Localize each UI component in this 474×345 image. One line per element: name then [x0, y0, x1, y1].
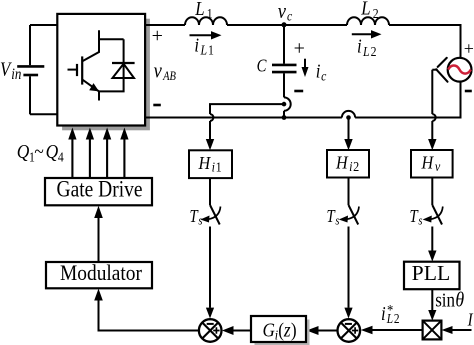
wire summer2 to modulator [94, 289, 198, 331]
label Ts 3 [410, 208, 423, 228]
arrow summer1 to Gi(z) [307, 326, 338, 335]
sampler Ts 3 [423, 178, 443, 262]
wire battery bottom [30, 113, 57, 115]
svg-text:2: 2 [371, 43, 377, 59]
svg-text:i: i [381, 302, 386, 324]
block Gi(z) shadow [255, 320, 310, 345]
svg-text:z: z [283, 319, 291, 342]
wire top rail mid [227, 24, 347, 26]
svg-text:Modulator: Modulator [60, 260, 142, 285]
wire Hv tap down with hop over rail [428, 70, 436, 151]
svg-text:Q: Q [17, 141, 30, 163]
gate drive arrows to inverter [68, 128, 128, 179]
inverter U1 shadow [62, 19, 150, 131]
label Ts 1 [190, 208, 203, 228]
svg-text:C: C [257, 57, 267, 75]
arrow input I [442, 326, 472, 334]
label vAB [154, 59, 176, 83]
svg-text:L: L [362, 43, 369, 59]
wire PLL to multiplier [428, 289, 436, 320]
block PLL [404, 261, 460, 289]
svg-text:s: s [198, 215, 203, 228]
sensor loop Hi2 pickup on rail [342, 111, 355, 120]
svg-text:v: v [278, 0, 287, 23]
arrow iL1 [190, 31, 222, 39]
wire modulator to gate drive [94, 206, 103, 262]
label sin theta [435, 289, 464, 312]
svg-text:T: T [327, 208, 336, 226]
svg-text:i: i [194, 34, 199, 56]
sampler Ts 1 [200, 178, 220, 319]
summer S2 [199, 319, 222, 342]
inductor L1 [185, 17, 227, 25]
svg-text:Gate Drive: Gate Drive [57, 177, 143, 202]
svg-text:2: 2 [353, 160, 359, 175]
svg-text:v: v [435, 160, 441, 175]
transistor Q IGBT [68, 39, 100, 91]
label L2 [360, 0, 378, 21]
svg-text:s: s [418, 215, 423, 228]
svg-text:2: 2 [394, 311, 400, 326]
wire Hi2 sense line [344, 119, 352, 150]
label ic [316, 60, 327, 84]
block Modulator [46, 260, 152, 288]
svg-text:L: L [360, 0, 370, 19]
wire top rail right [389, 25, 461, 57]
sensor block Hv [411, 150, 453, 178]
svg-text:4: 4 [58, 150, 64, 165]
multiplier X box [423, 321, 442, 340]
svg-text:+: + [464, 39, 474, 59]
svg-text:PLL: PLL [412, 261, 451, 285]
svg-text:+: + [294, 38, 305, 60]
label C [257, 57, 267, 75]
label + cap [294, 38, 305, 60]
voltage probe Hv clamp [432, 58, 447, 82]
block Gi(z) [251, 316, 306, 343]
label Q1~Q4 [17, 141, 65, 165]
svg-text:L: L [194, 0, 204, 19]
diode D [99, 30, 135, 100]
label - cap [294, 90, 303, 93]
label Ts 2 [327, 208, 340, 228]
label iL1 [194, 34, 213, 58]
svg-text:AB: AB [162, 70, 176, 83]
svg-text:T: T [410, 208, 419, 226]
svg-text:T: T [190, 208, 199, 226]
svg-text:i: i [316, 60, 321, 82]
summer S1 [338, 319, 361, 342]
arrow ic [302, 59, 309, 77]
svg-text:1: 1 [216, 160, 222, 175]
svg-text:H: H [198, 153, 212, 173]
svg-text:H: H [335, 153, 349, 173]
junction dot capacitor-rail [282, 115, 287, 120]
sensor block Hi1 [189, 150, 232, 178]
block Gate Drive [45, 177, 152, 206]
wire bottom rail left [146, 117, 342, 119]
AC source Vg [448, 58, 472, 82]
wire battery top [30, 24, 57, 26]
label - vAB [153, 104, 161, 107]
svg-text:i: i [357, 35, 362, 57]
inverter U1 box [57, 14, 145, 126]
svg-text:2: 2 [373, 5, 379, 21]
svg-text:~: ~ [34, 141, 43, 163]
label - grid [465, 90, 472, 93]
wire bottom rail right [355, 82, 460, 118]
wire Hi1 sense line [206, 104, 284, 150]
arrow iL2 [352, 30, 382, 38]
svg-text:v: v [154, 59, 163, 83]
label + vAB [152, 25, 163, 47]
svg-text:H: H [421, 153, 435, 173]
label L1 [194, 0, 212, 21]
svg-text:G: G [263, 319, 276, 342]
capacitor C [272, 25, 297, 97]
svg-text:): ) [291, 319, 297, 342]
sensor loop Hi1 pickup on capacitor leg [282, 97, 291, 117]
label I [467, 309, 474, 330]
label iL2 [357, 35, 376, 59]
svg-text:L: L [200, 42, 207, 58]
sensor block Hi2 [327, 150, 369, 178]
battery Vin [17, 25, 44, 114]
label Vin [0, 58, 21, 83]
label vc [278, 0, 293, 24]
svg-text:sin: sin [435, 289, 455, 312]
svg-text:1: 1 [208, 42, 214, 58]
label + grid [464, 39, 474, 59]
svg-text:c: c [321, 68, 326, 84]
arrow multiplier to summer1 [361, 326, 423, 335]
wire top rail left [146, 24, 185, 26]
svg-text:c: c [287, 8, 292, 24]
svg-text:+: + [152, 25, 163, 47]
node vc dot [282, 22, 287, 27]
svg-text:L: L [386, 311, 393, 326]
label iL2 ref [381, 302, 400, 327]
svg-text:s: s [335, 215, 340, 228]
svg-text:in: in [11, 66, 21, 83]
sampler Ts 2 [339, 178, 359, 319]
svg-text:θ: θ [455, 289, 464, 312]
svg-text:Q: Q [46, 141, 59, 163]
svg-text:1: 1 [207, 5, 213, 21]
inductor L2 [347, 17, 389, 25]
arrow Gi(z) to summer2 [222, 326, 251, 335]
